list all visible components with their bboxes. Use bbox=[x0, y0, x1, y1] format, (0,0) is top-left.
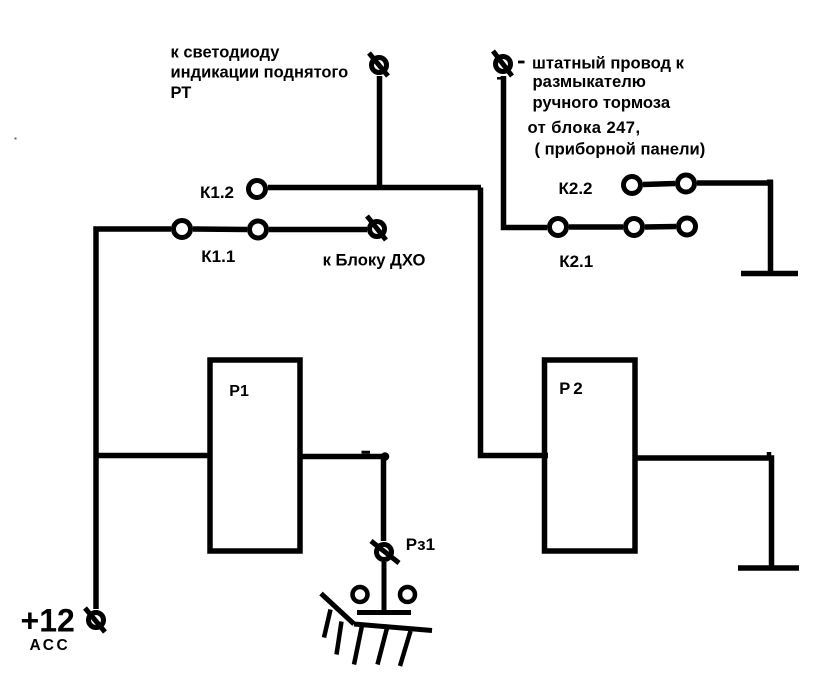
wire between К2.1 circles 1-2 bbox=[569, 224, 623, 230]
svg-text:2: 2 bbox=[573, 379, 582, 398]
wire Рз1 down to brake switch bbox=[382, 562, 387, 612]
contact К1.2 circle bbox=[249, 181, 266, 198]
svg-text:размыкателю: размыкателю bbox=[533, 72, 646, 91]
wire between К2.1 circles 2-3 bbox=[645, 224, 676, 230]
terminal Рз1 connector bbox=[371, 541, 399, 563]
label штатный провод к размыкателю ручного тормоза от блока 247 (приборной панели) bbox=[528, 54, 706, 159]
terminal X2 (штатный провод) bbox=[493, 51, 512, 76]
corner tick bbox=[767, 180, 773, 183]
chassis hatch 3 bbox=[354, 626, 362, 665]
svg-text:Рз1: Рз1 bbox=[406, 535, 435, 554]
speck artifact bbox=[15, 138, 17, 140]
wire from X2 down to K2.1 bbox=[504, 76, 548, 228]
contact К2.2 right circle bbox=[678, 175, 695, 192]
contact К2.1 left circle bbox=[550, 219, 567, 236]
chassis slant line right bbox=[354, 624, 432, 631]
corner knob bbox=[381, 452, 390, 461]
brake switch bar bbox=[357, 610, 411, 615]
wire P2 to ground right bbox=[637, 458, 772, 568]
brake switch right ring bbox=[400, 587, 415, 602]
chassis hatch 2 bbox=[337, 622, 342, 655]
wire К1.2 to node A to corner bbox=[268, 185, 481, 191]
corner tick bbox=[767, 452, 772, 458]
svg-text:К1.1: К1.1 bbox=[201, 247, 235, 266]
wire from X1 down to node A bbox=[377, 76, 383, 189]
svg-text:P: P bbox=[559, 380, 570, 398]
brake switch left ring bbox=[353, 587, 368, 602]
chassis slant line left bbox=[321, 594, 354, 625]
wire К1.1 to terminal X3 bbox=[269, 227, 367, 233]
svg-text:К1.2: К1.2 bbox=[200, 183, 234, 202]
svg-text:к светодиоду: к светодиоду bbox=[171, 44, 281, 62]
corner tick bbox=[362, 451, 371, 454]
dash before label bbox=[518, 61, 525, 64]
svg-text:РТ: РТ bbox=[171, 84, 192, 102]
contact К1.1 right circle bbox=[250, 221, 267, 238]
svg-text:К2.1: К2.1 bbox=[559, 252, 593, 271]
contact К1.1 left circle bbox=[174, 221, 191, 238]
terminal X1 (к светодиоду) bbox=[369, 53, 388, 76]
wire between К1.1 circles bbox=[193, 226, 247, 232]
terminal X4 (+12 ACC) bbox=[85, 608, 105, 632]
ground bar bottom right bbox=[738, 565, 799, 571]
chassis hatch 5 bbox=[400, 631, 411, 666]
wire P1 to corner down to Рз1 bbox=[302, 457, 384, 542]
long vertical wire down to P2 row bbox=[481, 188, 549, 456]
wire К2.2 to ground corner bbox=[697, 183, 771, 273]
terminal X3 (к Блоку ДХО) bbox=[367, 216, 386, 240]
chassis hatch 4 bbox=[378, 628, 388, 665]
wire between К2.2 circles bbox=[643, 184, 675, 185]
svg-text:К2.2: К2.2 bbox=[559, 179, 593, 198]
svg-text:P1: P1 bbox=[229, 383, 249, 400]
contact К2.1 middle circle bbox=[626, 219, 643, 236]
svg-text:+12: +12 bbox=[21, 603, 75, 639]
svg-text:от блока 247,: от блока 247, bbox=[528, 118, 641, 137]
label к светодиоду индикации поднятого РТ bbox=[171, 44, 349, 103]
contact К2.1 right circle bbox=[679, 218, 696, 235]
svg-text:штатный провод к: штатный провод к bbox=[532, 54, 685, 73]
chassis hatch 1 bbox=[324, 610, 331, 638]
tick on X2 stem bbox=[497, 77, 503, 80]
svg-text:к Блоку ДХО: к Блоку ДХО bbox=[323, 251, 426, 270]
wire left vertical to P1 bbox=[94, 453, 208, 459]
svg-text:АСС: АСС bbox=[30, 637, 71, 654]
ground bar top right bbox=[741, 271, 798, 277]
svg-text:индикации поднятого: индикации поднятого bbox=[171, 63, 349, 81]
contact К2.2 left circle bbox=[624, 177, 641, 194]
relay P1 box bbox=[210, 360, 300, 551]
svg-text:( приборной панели): ( приборной панели) bbox=[535, 140, 706, 159]
wire corner left (from +12) to К1.1 bbox=[96, 229, 171, 609]
relay P2 box bbox=[545, 360, 636, 551]
svg-text:ручного тормоза: ручного тормоза bbox=[533, 93, 671, 112]
